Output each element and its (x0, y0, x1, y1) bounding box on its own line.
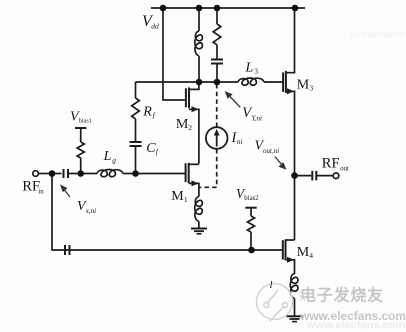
svg-text:dd: dd (151, 21, 159, 30)
svg-text:3: 3 (254, 66, 258, 75)
svg-text:C: C (146, 141, 156, 156)
svg-text:4: 4 (309, 251, 313, 260)
svg-text:Y,ni: Y,ni (252, 115, 263, 123)
svg-text:ni: ni (237, 137, 243, 146)
svg-text:bias2: bias2 (244, 195, 259, 202)
svg-text:out,ni: out,ni (263, 147, 279, 155)
svg-text:2: 2 (188, 123, 192, 132)
svg-text:in: in (38, 189, 44, 196)
svg-text:M: M (171, 189, 184, 204)
svg-text:M: M (297, 245, 310, 260)
svg-text:g: g (112, 156, 116, 165)
svg-text:RF: RF (322, 155, 340, 171)
svg-text:L: L (245, 60, 254, 75)
svg-text:3: 3 (309, 83, 313, 92)
svg-text:电子发烧友: 电子发烧友 (300, 286, 384, 305)
svg-text:f: f (156, 147, 159, 156)
svg-text:f: f (153, 111, 156, 120)
svg-text:R: R (142, 105, 152, 120)
svg-text:1: 1 (184, 195, 188, 204)
svg-text:M: M (176, 117, 189, 132)
svg-text:out: out (340, 166, 349, 173)
svg-text:www.elecfans.com: www.elecfans.com (306, 320, 405, 332)
svg-text:l: l (270, 279, 273, 291)
svg-text:M: M (297, 77, 310, 92)
svg-text:bias1: bias1 (79, 117, 92, 124)
svg-text:w.elecfans.com: w.elecfans.com (349, 29, 406, 41)
svg-text:x,ni: x,ni (85, 207, 96, 215)
svg-text:L: L (103, 149, 112, 164)
